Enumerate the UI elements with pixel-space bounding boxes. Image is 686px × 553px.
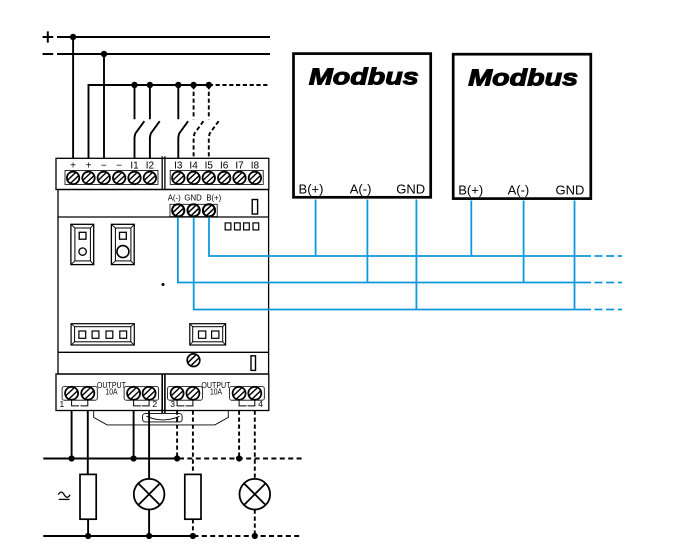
svg-text:I8: I8 (251, 161, 260, 172)
svg-text:I3: I3 (174, 161, 183, 172)
svg-text:B(+): B(+) (206, 194, 221, 203)
svg-text:B(+): B(+) (458, 183, 483, 198)
svg-text:I7: I7 (235, 161, 244, 172)
svg-text:I4: I4 (189, 161, 198, 172)
svg-text:A(-): A(-) (350, 182, 372, 197)
svg-text:GND: GND (396, 182, 425, 197)
svg-text:10A: 10A (106, 386, 118, 396)
svg-text:+: + (70, 161, 76, 172)
svg-text:GND: GND (184, 194, 202, 203)
svg-text:−: − (101, 161, 107, 172)
svg-text:I1: I1 (130, 161, 139, 172)
svg-text:A(-): A(-) (168, 194, 181, 203)
svg-text:GND: GND (555, 183, 584, 198)
svg-text:A(-): A(-) (508, 183, 530, 198)
svg-text:+: + (86, 161, 92, 172)
svg-text:10A: 10A (210, 386, 222, 396)
svg-text:B(+): B(+) (299, 182, 324, 197)
svg-text:Modbus: Modbus (309, 63, 419, 90)
svg-text:Modbus: Modbus (468, 64, 578, 91)
svg-text:I5: I5 (205, 161, 214, 172)
svg-text:I6: I6 (220, 161, 229, 172)
svg-text:I2: I2 (146, 161, 155, 172)
svg-text:−: − (116, 161, 122, 172)
